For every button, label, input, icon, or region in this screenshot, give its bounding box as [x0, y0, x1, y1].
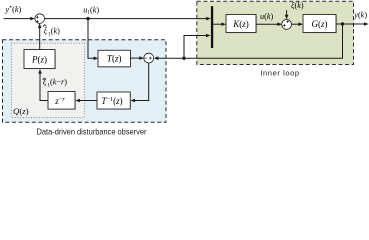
block P(z)	[26, 51, 56, 69]
wire G(z) to output y(k)	[336, 23, 365, 25]
svg-text:P(z): P(z)	[31, 54, 47, 64]
wire bar to K(z)	[213, 23, 222, 25]
block T^-1(z)	[99, 94, 131, 110]
wire T-inverse to z^-r	[80, 100, 98, 102]
wire K(z) to S2, label u(k)	[256, 23, 279, 25]
node on u1 wire	[86, 17, 89, 20]
summing junction S3	[144, 53, 154, 63]
summing junction S2	[282, 20, 292, 30]
feedback wire from y(k) node to S3	[158, 24, 343, 58]
svg-text:ξ(k): ξ(k)	[291, 1, 304, 10]
svg-text:y(k): y(k)	[353, 11, 367, 20]
wire feedback branch up to bar	[184, 36, 207, 59]
svg-text:u1(k): u1(k)	[83, 5, 99, 15]
node on output wire	[341, 22, 344, 25]
svg-text:y*(k): y*(k)	[5, 5, 22, 14]
Q(z) dashed box	[12, 43, 85, 117]
svg-text:T(z): T(z)	[107, 54, 122, 64]
block z^-r	[50, 93, 76, 110]
wire S2 to G(z)	[292, 23, 300, 25]
svg-text:Q(z): Q(z)	[13, 106, 29, 116]
block T(z)	[100, 52, 131, 68]
wire T(z) to S3	[131, 57, 141, 59]
svg-text:K(z): K(z)	[232, 19, 249, 29]
summing junction S1	[35, 14, 45, 24]
svg-text:ξ: ξ	[44, 27, 48, 36]
svg-text:Data-driven disturbance observ: Data-driven disturbance observer	[37, 128, 147, 136]
observer dashed box (Data-driven disturbance observer)	[3, 40, 167, 123]
svg-text:(k−r): (k−r)	[50, 78, 67, 87]
wire u1 to bar	[45, 18, 208, 20]
wire z^-r to P(z)	[40, 73, 48, 101]
wire P(z) up to S1	[39, 27, 41, 50]
inner loop dashed box	[197, 1, 354, 64]
svg-text:Inner loop: Inner loop	[260, 68, 299, 77]
wire y* input	[4, 18, 32, 20]
node on feedback wire	[182, 57, 185, 60]
block G(z)	[305, 16, 337, 33]
svg-text:G(z): G(z)	[311, 19, 327, 29]
svg-text:(k): (k)	[51, 27, 60, 36]
data concatenation bar	[211, 6, 213, 48]
block K(z)	[228, 16, 257, 33]
wire u1 branch down to T(z)	[88, 19, 95, 59]
wire S3 down to T-inverse	[135, 63, 149, 101]
svg-text:u(k): u(k)	[260, 12, 273, 21]
